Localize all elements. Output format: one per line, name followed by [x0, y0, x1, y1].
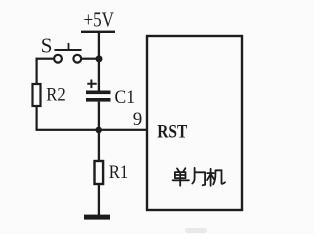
switch S actuator stem — [68, 43, 70, 49]
switch S pushbutton actuator bar — [55, 49, 82, 51]
svg-text:R2: R2 — [46, 85, 66, 106]
wire: R2 to bottom rail — [36, 106, 38, 131]
node B junction dot — [95, 127, 102, 134]
wire: node A to capacitor C1 — [98, 59, 100, 91]
capacitor C1 bottom plate — [86, 98, 111, 102]
capacitor C1 polarity plus sign — [87, 80, 96, 89]
capacitor C1 top plate — [86, 91, 111, 95]
svg-text:+5V: +5V — [84, 7, 115, 31]
wire: left contact to left drop — [36, 58, 55, 60]
svg-text:S: S — [41, 33, 53, 57]
glyph 单 — [173, 168, 189, 186]
svg-text:RST: RST — [157, 123, 188, 143]
faint caption smudge — [185, 228, 207, 233]
node A junction dot — [96, 55, 103, 62]
resistor R2 body — [33, 84, 41, 106]
wire: R1 to ground — [98, 184, 100, 215]
ground — [84, 215, 110, 220]
wire: bottom rail to RST pin — [36, 129, 147, 131]
glyph 片 — [192, 168, 205, 185]
wire: right contact to node A — [81, 58, 99, 60]
svg-text:C1: C1 — [115, 87, 136, 108]
microcontroller U1 box — [147, 36, 242, 210]
wire: C1 to node B — [98, 102, 100, 131]
svg-text:R1: R1 — [109, 162, 129, 183]
svg-text:9: 9 — [133, 109, 143, 130]
glyph 机 — [207, 169, 225, 186]
microcontroller U1 name 单片机 (drawn glyphs) — [173, 168, 225, 186]
wire: left vertical drop to R2 — [36, 58, 38, 84]
+5V rail bar — [81, 31, 115, 33]
wire: node B to resistor R1 — [98, 130, 100, 161]
switch S right contact — [73, 55, 81, 63]
switch S left contact — [54, 55, 62, 63]
wire: rail to switch-level junction — [98, 33, 100, 59]
resistor R1 body — [95, 161, 104, 184]
